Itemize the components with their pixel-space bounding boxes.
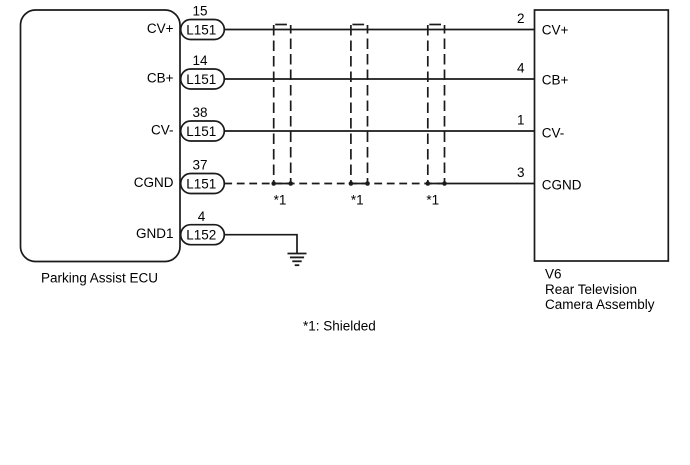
wire CV- — [224, 130, 534, 132]
wire CGND solid between shield dots pair 1 — [274, 183, 291, 185]
svg-text:Camera Assembly: Camera Assembly — [545, 297, 655, 312]
svg-text:L151: L151 — [186, 176, 216, 191]
shield 2 left dashed line — [350, 25, 352, 184]
svg-text:CV+: CV+ — [542, 22, 569, 37]
svg-text:CGND: CGND — [542, 177, 582, 192]
svg-text:2: 2 — [517, 11, 525, 26]
shield 2 top dash — [352, 24, 364, 26]
wire CV+ — [224, 29, 534, 31]
svg-text:CV-: CV- — [542, 126, 565, 141]
wire CGND dashed from pill to last shield — [224, 183, 444, 185]
svg-text:L152: L152 — [186, 228, 216, 243]
shield 1 right dashed line — [290, 25, 292, 184]
wire CGND solid between shield dots pair 3 — [428, 183, 445, 185]
shield 3 right dashed line — [444, 25, 446, 184]
wire CGND solid between shield dots pair 2 — [351, 183, 368, 185]
shield 3 left dashed line — [427, 25, 429, 184]
connector pill L151 pin 37 — [181, 174, 225, 194]
svg-text:CV+: CV+ — [147, 21, 174, 36]
svg-text:3: 3 — [517, 165, 525, 180]
svg-text:L151: L151 — [186, 72, 216, 87]
shield 3 junction dot right — [442, 181, 447, 186]
shield 2 right dashed line — [367, 25, 369, 184]
shield 1 junction dot left — [271, 181, 276, 186]
svg-text:*1: *1 — [426, 193, 439, 208]
svg-text:L151: L151 — [186, 124, 216, 139]
connector pill L152 pin 4 — [181, 225, 225, 245]
Parking Assist ECU box — [21, 10, 181, 262]
connector pill L151 pin 14 — [181, 69, 225, 89]
svg-text:*1: Shielded: *1: Shielded — [303, 319, 376, 334]
svg-text:Rear Television: Rear Television — [545, 282, 637, 297]
connector pill L151 pin 38 — [181, 121, 225, 141]
svg-text:*1: *1 — [274, 193, 287, 208]
ground symbol — [288, 254, 307, 266]
wire GND1 — [224, 235, 297, 254]
svg-text:GND1: GND1 — [136, 226, 174, 241]
svg-text:Parking Assist ECU: Parking Assist ECU — [41, 271, 158, 286]
svg-text:CB+: CB+ — [542, 73, 569, 88]
wire CB+ — [224, 78, 534, 80]
shield 2 junction dot right — [365, 181, 370, 186]
right box V6 Rear Television Camera Assembly — [535, 10, 669, 261]
wire CGND solid tail to camera — [445, 183, 535, 185]
svg-text:37: 37 — [192, 158, 207, 173]
svg-text:CV-: CV- — [151, 122, 174, 137]
shield 1 left dashed line — [273, 25, 275, 184]
svg-text:1: 1 — [517, 112, 525, 127]
svg-text:4: 4 — [198, 209, 206, 224]
shield 1 top dash — [275, 24, 287, 26]
shield 1 junction dot right — [288, 181, 293, 186]
connector pill L151 pin 15 — [181, 20, 225, 40]
svg-text:CB+: CB+ — [147, 70, 174, 85]
svg-text:4: 4 — [517, 60, 525, 75]
svg-text:38: 38 — [192, 105, 207, 120]
svg-text:CGND: CGND — [134, 175, 174, 190]
svg-text:V6: V6 — [545, 267, 562, 282]
svg-text:L151: L151 — [186, 22, 216, 37]
svg-text:15: 15 — [192, 4, 207, 19]
shield 3 top dash — [429, 24, 441, 26]
svg-text:14: 14 — [192, 53, 208, 68]
svg-text:*1: *1 — [351, 193, 364, 208]
shield 2 junction dot left — [349, 181, 354, 186]
shield 3 junction dot left — [426, 181, 431, 186]
